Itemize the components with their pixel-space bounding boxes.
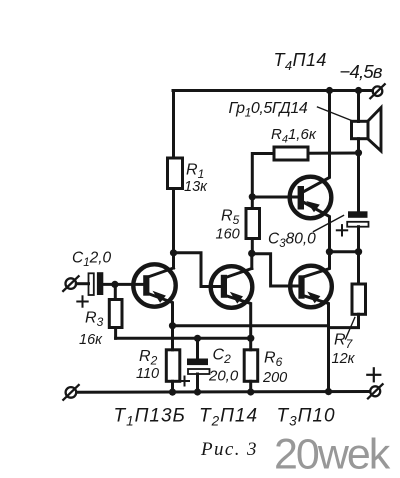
svg-text:R3: R3 xyxy=(85,310,104,330)
svg-text:Рис. 3: Рис. 3 xyxy=(200,439,258,460)
wire R4 left lead down to T4 base node xyxy=(252,154,274,197)
transistor T3 base bar xyxy=(298,275,304,298)
wire bottom ground rail xyxy=(77,390,371,394)
wire R3 bottom to line B xyxy=(114,328,117,339)
resistor R4 1.6k xyxy=(274,147,308,160)
svg-text:12к: 12к xyxy=(332,351,356,367)
node rail at C2 xyxy=(194,388,201,395)
svg-text:R6: R6 xyxy=(264,350,283,370)
wire C1 to T1 base xyxy=(103,283,143,286)
capacitor C1 right plate (filled) xyxy=(97,272,103,295)
resistor R6 200 wire top xyxy=(249,338,252,350)
transistor T2 emitter arrowhead xyxy=(230,292,243,304)
node on rail at speaker branch xyxy=(355,87,362,94)
transistor T4 emitter arrowhead xyxy=(306,201,320,212)
wire T4 emitter node to C3/R7 node xyxy=(330,250,359,253)
resistor R6 200 xyxy=(244,350,258,382)
resistor R7 12k xyxy=(352,284,366,314)
svg-text:110: 110 xyxy=(136,366,159,382)
transistor T2 collector diagonal xyxy=(227,269,252,278)
wire R3 top xyxy=(114,284,117,299)
terminal ground left xyxy=(63,385,78,400)
plus sign at C2 xyxy=(180,377,189,386)
transistor T3 circle xyxy=(290,266,332,308)
transistor T2 emitter lead with arrow xyxy=(227,296,251,338)
node T4 emitter / T3 collector xyxy=(326,248,333,255)
wire left drop from rail to R1 xyxy=(172,91,175,159)
speaker Gr1 0.5GD14 wire from rail xyxy=(357,91,360,122)
capacitor C3 bottom plate (hollow) xyxy=(347,222,368,227)
transistor U T4 circle xyxy=(290,177,332,219)
node T1 collector / branch to T2 base xyxy=(170,249,177,256)
pointer line from C3 label to capacitor xyxy=(314,216,344,232)
wire C3 bottom plate to node xyxy=(357,227,360,252)
node C3 bottom / R7 top xyxy=(355,248,362,255)
wire T2 collector xyxy=(250,253,253,268)
wire C2 bottom to rail xyxy=(196,374,199,392)
wire node down to capacitor top plate xyxy=(357,153,360,212)
resistor R3 16k xyxy=(109,300,122,328)
resistor R2 110 wire top xyxy=(171,326,174,350)
transistor T1 circle xyxy=(133,264,175,306)
capacitor C2 bottom plate (hollow) xyxy=(188,369,210,374)
svg-text:Т2П14: Т2П14 xyxy=(199,406,258,429)
terminal -4.5V top right xyxy=(370,84,384,98)
capacitor C2 top plate (filled) xyxy=(187,359,208,366)
transistor T1 collector diagonal xyxy=(149,268,173,277)
node R4 / R5 / T4 base xyxy=(249,193,256,200)
svg-text:R2: R2 xyxy=(139,348,158,368)
resistor R7 12k wire from node xyxy=(357,252,360,284)
transistor T4 emitter lead with arrow xyxy=(304,203,330,252)
plus sign at C1 xyxy=(77,296,87,306)
wire top supply rail xyxy=(173,89,373,92)
wire T4 base xyxy=(252,196,297,199)
svg-text:20,0: 20,0 xyxy=(208,368,239,385)
svg-text:Т3П10: Т3П10 xyxy=(277,406,336,429)
capacitor C1 left plate (hollow) xyxy=(89,273,94,295)
transistor T3 emitter arrowhead xyxy=(307,292,320,304)
node R5 / T2 collector / T3 base branch xyxy=(248,250,255,257)
node rail at R2 xyxy=(169,389,176,396)
svg-text:С380,0: С380,0 xyxy=(268,231,316,251)
wire emitter bus line A (T1e to T3e) xyxy=(173,324,329,327)
wire R1 bottom to T1 collector xyxy=(172,189,175,269)
wire branch T1 collector to T2 base xyxy=(174,253,221,287)
svg-text:R7: R7 xyxy=(334,332,354,352)
node rail at T3 emitter xyxy=(325,388,332,395)
resistor R2 110 xyxy=(166,350,180,382)
wire R5 bottom to node xyxy=(251,239,254,254)
svg-text:С2: С2 xyxy=(213,347,232,367)
svg-text:13к: 13к xyxy=(184,179,208,195)
wire R5 top xyxy=(251,197,254,209)
wire speaker bottom to node xyxy=(357,139,360,153)
wire R4 right lead to speaker node xyxy=(308,152,359,155)
wire R7 bottom L to T3 emitter line xyxy=(329,314,359,327)
wire R6 bottom to rail xyxy=(249,381,252,392)
svg-text:16к: 16к xyxy=(79,332,103,348)
transistor T4 base bar xyxy=(298,186,304,210)
svg-text:−4,5в: −4,5в xyxy=(340,61,383,82)
node on rail at T4 collector xyxy=(326,87,333,94)
svg-text:20wek: 20wek xyxy=(274,431,391,478)
svg-text:200: 200 xyxy=(262,370,287,386)
plus sign at C3 xyxy=(337,225,347,235)
node line B at C2 xyxy=(194,335,201,342)
svg-text:С12,0: С12,0 xyxy=(72,250,112,270)
svg-text:160: 160 xyxy=(216,227,240,243)
capacitor C3 top plate (filled) xyxy=(348,211,368,218)
svg-text:R5: R5 xyxy=(221,208,240,228)
wire R2 bottom to rail xyxy=(171,381,174,392)
transistor T3 collector lead xyxy=(305,252,330,277)
pointer line from Gr1 label to speaker xyxy=(318,107,352,121)
wire input to C1 xyxy=(76,282,88,285)
terminal +4.5V bottom right xyxy=(368,384,383,398)
svg-text:Гр10,5ГД14: Гр10,5ГД14 xyxy=(229,100,308,120)
transistor T1 emitter lead with arrow xyxy=(149,294,172,326)
wire line B (R3 to T2 emitter/R6) xyxy=(116,337,251,340)
resistor R1 13k xyxy=(168,158,183,189)
capacitor C2 wire top xyxy=(196,338,199,358)
transistor T1 base bar xyxy=(143,275,149,296)
node rail at R6 xyxy=(247,388,254,395)
node C1 / R3 / T1 base xyxy=(111,281,118,288)
transistor T1 emitter arrowhead xyxy=(153,291,166,303)
speaker Gr1 box xyxy=(352,121,369,138)
transistor T2 base bar xyxy=(221,275,227,298)
svg-text:Т4П14: Т4П14 xyxy=(274,50,327,73)
node line A at R2 xyxy=(169,322,176,329)
svg-text:R41,6к: R41,6к xyxy=(271,126,317,146)
pointer line from R7 label xyxy=(346,318,355,340)
node speaker / R4 / C3 cap top xyxy=(355,149,362,156)
transistor T2 circle xyxy=(211,266,253,308)
node line B / T2 emitter / R6 xyxy=(247,335,254,342)
svg-text:Т1П13Б: Т1П13Б xyxy=(114,406,186,429)
transistor T3 emitter lead with arrow xyxy=(305,296,329,392)
plus sign at bottom right terminal xyxy=(367,368,380,381)
speaker Gr1 cone xyxy=(368,108,381,151)
terminal input left xyxy=(63,276,78,291)
resistor R5 160 xyxy=(246,209,260,239)
transistor T4 collector lead xyxy=(304,91,330,192)
wire branch to T3 base xyxy=(252,254,299,286)
